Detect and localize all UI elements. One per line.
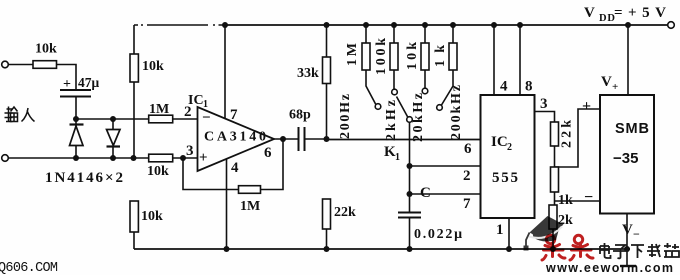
svg-text:555: 555 [492, 170, 518, 186]
wire 22k to 1k junction [554, 146, 556, 167]
svg-text:−: − [202, 110, 211, 126]
IC2 555 box [481, 95, 535, 218]
wire 1k bottom junction [554, 192, 556, 205]
svg-text:200Hz: 200Hz [338, 94, 353, 139]
svg-text:6: 6 [264, 145, 272, 161]
svg-text:7: 7 [230, 107, 238, 123]
terminal input bottom [2, 155, 9, 162]
diode D1 [70, 125, 121, 147]
watermark graduation cap [524, 216, 564, 251]
svg-text:1k: 1k [558, 193, 573, 208]
wire minus terminal [555, 200, 601, 202]
svg-text:1M: 1M [240, 199, 260, 214]
wire IC2 pin8 [519, 25, 521, 95]
watermark red bug 1 [542, 235, 565, 260]
svg-text:V: V [622, 222, 633, 238]
wire IC2 pin3 stub [535, 112, 555, 123]
svg-text:4: 4 [500, 79, 508, 95]
capacitor 47u [60, 89, 91, 91]
resistor 1k switch [449, 43, 457, 70]
capacitor 68p [298, 127, 300, 151]
wire 1M to pin2 [173, 118, 198, 120]
wire input bottom row y158 [9, 157, 149, 159]
svg-text:7: 7 [463, 196, 471, 212]
wire output [274, 138, 299, 140]
resistor 100k switch [390, 43, 398, 70]
resistor 10k upper-left vertical [130, 54, 138, 82]
svg-text:100k: 100k [374, 38, 389, 75]
wire feedback left [183, 158, 239, 190]
contact 20kHz [422, 88, 428, 94]
resistor 2k [549, 205, 557, 229]
svg-text:Q606.COM: Q606.COM [0, 261, 58, 275]
contact 2kHz [392, 89, 398, 95]
resistor 10k pin3 [149, 154, 173, 162]
resistor 22k right [551, 122, 559, 146]
wire left column [133, 25, 135, 54]
svg-text:V: V [584, 5, 595, 21]
svg-text:IC: IC [188, 93, 204, 108]
svg-text:22k: 22k [334, 205, 356, 220]
diode D2 leads [112, 119, 114, 130]
svg-text:10k: 10k [405, 42, 420, 70]
svg-text:10k: 10k [147, 164, 169, 179]
resistor 22k bottom [323, 199, 331, 229]
wire R1k top lead [452, 25, 454, 43]
wire R1k lead [442, 70, 454, 105]
svg-text:10k: 10k [142, 59, 164, 74]
svg-text:V: V [601, 74, 612, 90]
svg-text:+5V: +5V [628, 5, 666, 21]
wire V- down [626, 214, 628, 266]
wire main line to IC2 pin6 [327, 139, 481, 141]
svg-text:3: 3 [186, 143, 194, 159]
svg-text:1: 1 [203, 99, 208, 110]
resistor R 10k input horizontal [33, 43, 559, 232]
svg-text:1: 1 [395, 152, 400, 163]
wire R100k top lead [393, 25, 395, 43]
diode D2 [107, 130, 121, 146]
wire input top [9, 64, 34, 66]
wire bottom rail [134, 248, 630, 250]
wire IC2 pin4 [493, 25, 495, 95]
wire 10k to cap [57, 65, 77, 91]
wire cap to node [75, 97, 77, 120]
terminal input top [2, 61, 9, 68]
wire 68p to node [305, 138, 327, 140]
SMB meter box [600, 95, 654, 214]
svg-text:=: = [614, 5, 623, 21]
wire pin4 down [226, 159, 228, 249]
svg-text:10k: 10k [141, 209, 163, 224]
contact 200kHz [437, 105, 443, 111]
svg-text:2: 2 [463, 168, 471, 184]
svg-text:200kHz: 200kHz [449, 85, 464, 140]
terminal VDD [668, 22, 675, 29]
resistor 1M feedback [239, 186, 261, 194]
svg-text:10k: 10k [35, 42, 57, 57]
svg-text:−: − [584, 189, 593, 206]
svg-text:1N4146×2: 1N4146×2 [45, 170, 123, 186]
wire node row y119 [76, 118, 149, 120]
wire R1M top lead [365, 25, 367, 43]
wire IC2 pin1 [508, 218, 510, 249]
svg-text:22k: 22k [560, 120, 575, 148]
svg-text:47μ: 47μ [78, 75, 100, 90]
wire to IC2 pin7 [410, 193, 481, 195]
wire R1M lead [366, 70, 376, 104]
wire V+ column [627, 25, 629, 95]
label shuru input chinese drawn [5, 107, 35, 122]
wiper pivot circle [407, 117, 413, 123]
switch K1 wiper [397, 97, 408, 118]
svg-text:1M: 1M [345, 43, 360, 66]
contact 200Hz [375, 104, 381, 110]
op-amp U1 triangle [198, 107, 275, 171]
svg-text:2kHz: 2kHz [384, 100, 399, 141]
svg-text:SMB: SMB [615, 121, 649, 137]
watermark dianzi xiazaizhan chinese [600, 243, 679, 258]
wire R10k top lead [424, 25, 426, 43]
wire 10k to pin3 [173, 157, 198, 159]
resistor 1M pin2 [149, 115, 173, 123]
resistor 1M switch [362, 43, 370, 70]
svg-text:6: 6 [464, 141, 472, 157]
wire to IC2 pin2 [410, 165, 481, 167]
svg-text:IC: IC [491, 134, 508, 150]
svg-text:DD: DD [599, 13, 615, 24]
resistor 1k right [551, 167, 559, 192]
wire 33k column [326, 25, 328, 57]
svg-text:4: 4 [231, 160, 239, 176]
diode D1 leads [75, 119, 77, 126]
svg-text:C: C [420, 185, 431, 201]
watermark red bug 2 [570, 235, 593, 260]
resistor 10k switch [421, 43, 429, 70]
svg-text:+: + [199, 150, 208, 166]
resistor 10k lower-left vertical [130, 201, 138, 232]
svg-text:1M: 1M [149, 102, 169, 117]
svg-text:2: 2 [507, 142, 512, 153]
wire 2k to rail [552, 229, 554, 249]
V- end bar [620, 265, 636, 267]
wire R100k lead [393, 70, 395, 89]
svg-text:+: + [612, 81, 618, 93]
wire feedback right drop [261, 139, 284, 190]
svg-text:www.eeworm.com: www.eeworm.com [545, 261, 673, 275]
wire R10k lead [424, 70, 426, 88]
svg-text:−35: −35 [613, 150, 638, 167]
wire top rail VDD [134, 24, 225, 26]
resistor 33k [323, 57, 331, 84]
svg-text:33k: 33k [297, 66, 319, 81]
svg-text:−: − [633, 227, 640, 241]
svg-text:+: + [582, 98, 591, 115]
wire pole column [409, 140, 411, 213]
svg-text:3: 3 [540, 96, 548, 112]
svg-text:+: + [63, 77, 71, 92]
svg-text:8: 8 [525, 79, 533, 95]
capacitor C 0.022u [398, 212, 421, 214]
svg-text:1: 1 [496, 222, 504, 238]
wire pin7 up [224, 25, 226, 119]
svg-text:68p: 68p [289, 108, 311, 123]
wire junction to plus terminal [555, 109, 601, 167]
